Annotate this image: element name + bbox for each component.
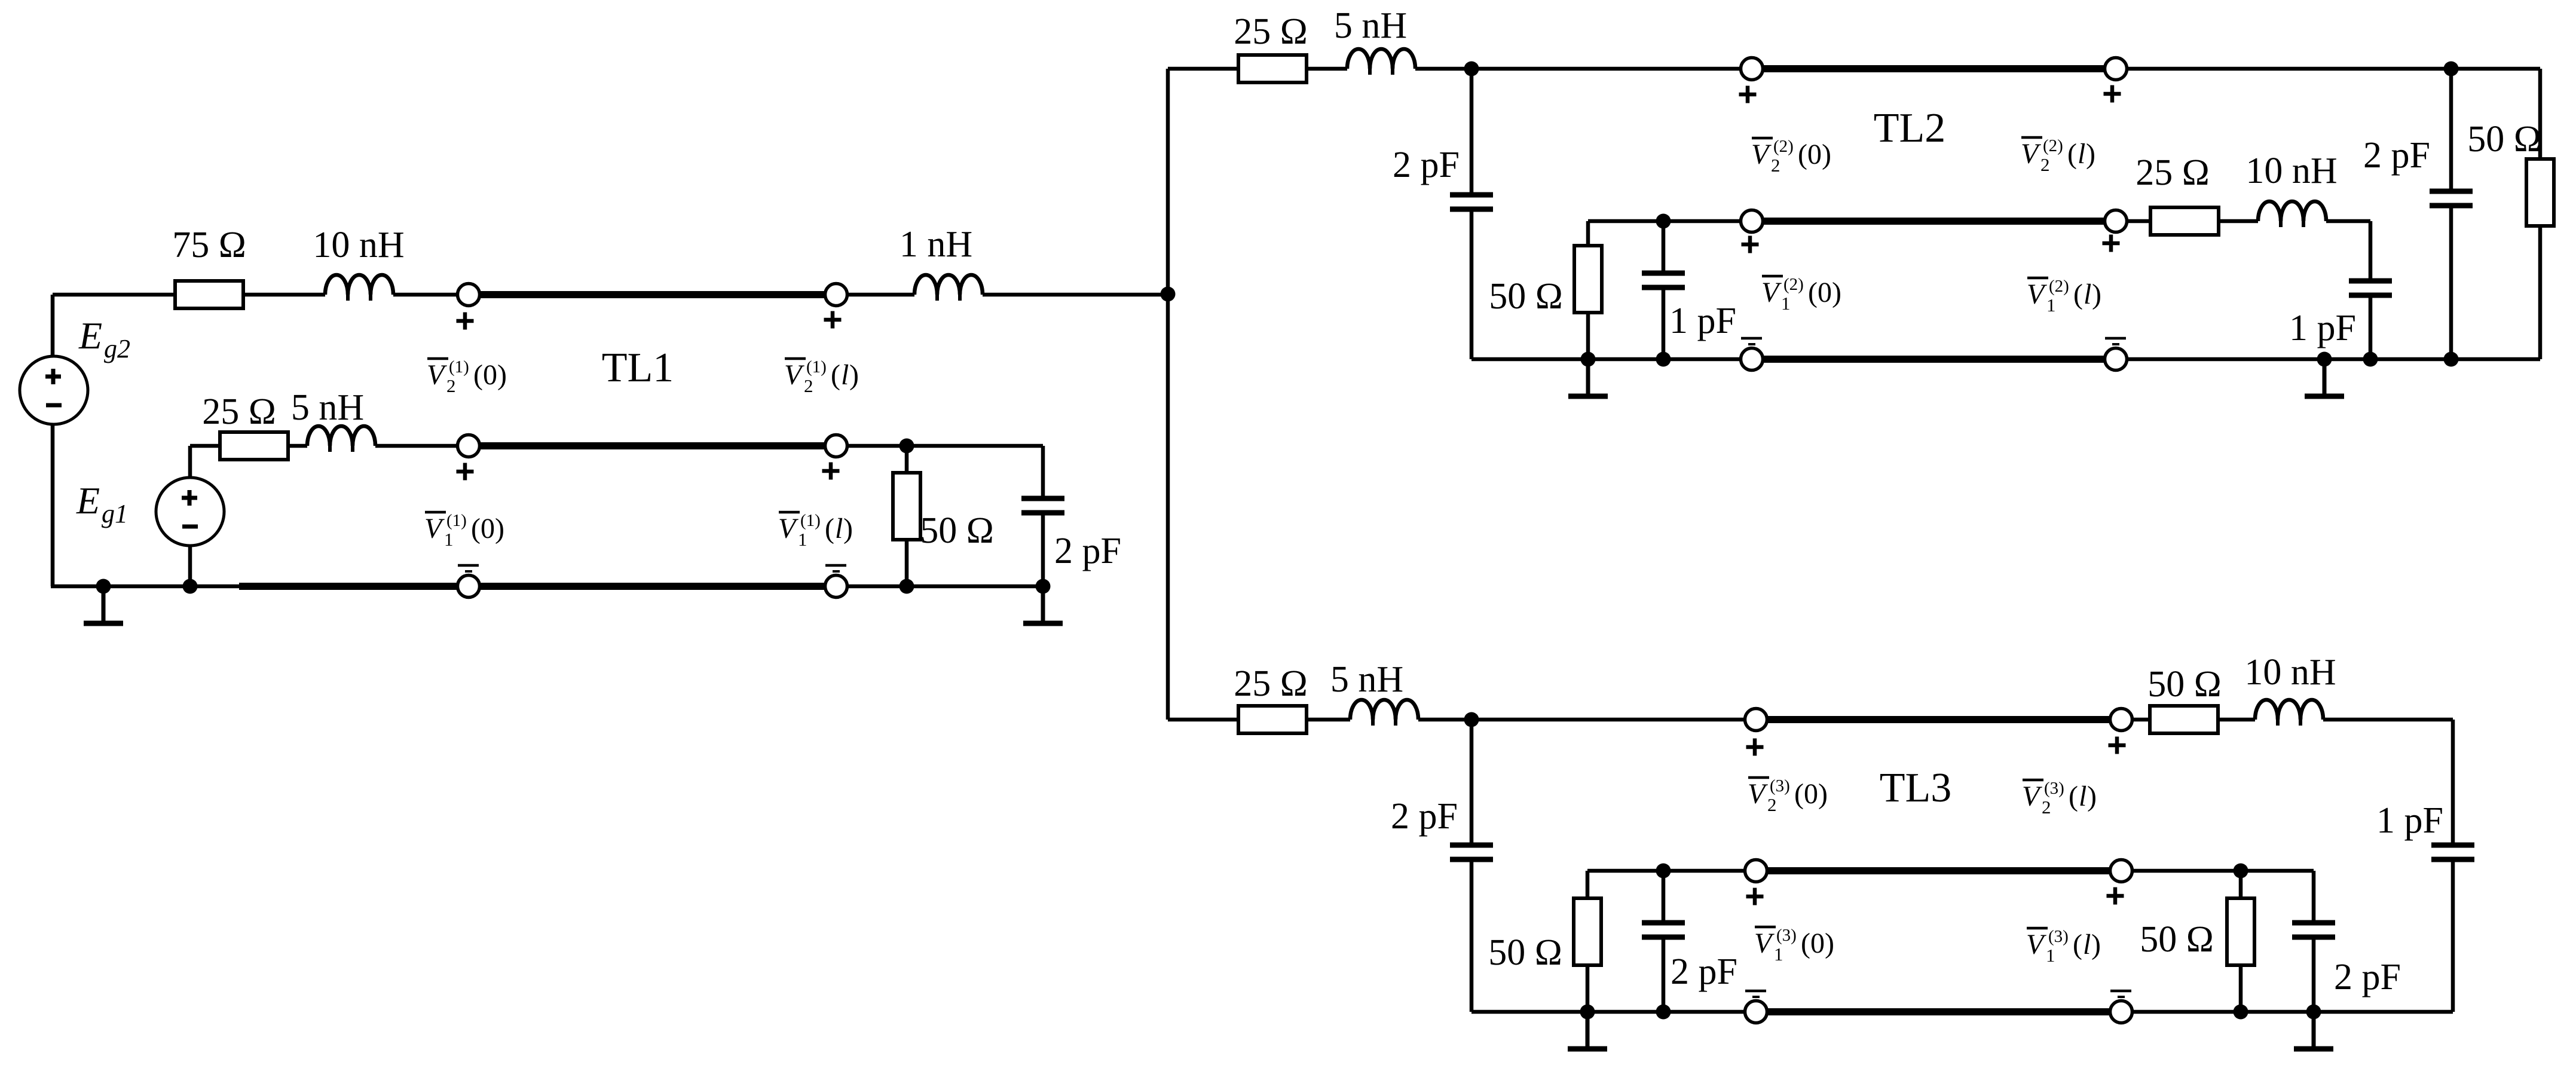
terminal V1(2)(0) [1741,210,1763,232]
svg-text:2: 2 [446,375,456,396]
junction 1pF bottom (TL2 input) [1656,352,1671,367]
wire E_g1 stem down [188,546,192,586]
label V1(2)(0) [1761,275,1841,314]
wire 50Ω top lead (TL3 input) [1586,871,1590,899]
svg-text:50 Ω: 50 Ω [1489,276,1563,317]
svg-text:l: l [841,359,849,391]
label 10nH (TL2 load) [2245,151,2337,191]
terminal V2(3)(l) [2110,709,2133,731]
svg-text:(0): (0) [1808,277,1841,308]
inductor 5nH (TL2 branch) [1347,49,1415,75]
junction ground-rail left [96,579,111,594]
label V2(3)(0) [1748,776,1828,815]
svg-text:(0): (0) [471,513,504,544]
svg-text:V: V [424,513,445,544]
label E_g1 [76,479,128,528]
inductor 10nH (TL3 top load) [2255,700,2323,726]
svg-text:TL1: TL1 [602,345,674,391]
label 2pF (TL3 inner) [1671,951,1737,992]
junction node TL3 input [1464,712,1479,727]
label 1pF (TL3 load) [2376,800,2443,841]
svg-text:1: 1 [2046,945,2055,966]
svg-text:g1: g1 [102,499,128,528]
junction ground (TL2 load) [2317,352,2332,367]
svg-text:5 nH: 5 nH [291,387,364,428]
junction cap bottom (TL1 load) [1036,579,1051,594]
resistor 25Ω (TL2 branch) [1238,55,1307,82]
svg-text:2: 2 [1767,794,1777,815]
svg-text:): ) [843,513,853,544]
svg-text:V: V [2021,138,2041,170]
junction node TL2 input [1464,62,1479,76]
svg-text:(1): (1) [806,357,827,377]
inductor 10nH [325,275,393,301]
label 50Ω (TL3 top load) [2147,664,2222,705]
svg-text:): ) [2091,929,2101,960]
wire 5nH to V2(2)(0) terminal [1415,67,1740,71]
svg-text:(1): (1) [449,357,469,377]
TL3 bottom conductor [1767,1008,2110,1015]
plus mark V1(2)(l) [2103,235,2120,252]
svg-text:): ) [2087,781,2097,812]
ground TL2 load [2305,359,2344,396]
svg-text:): ) [2092,279,2101,310]
svg-text:E: E [78,314,102,357]
label V2(2)(0) [1751,137,1831,176]
svg-text:(3): (3) [2048,927,2069,946]
svg-text:1 pF: 1 pF [2376,800,2443,841]
svg-text:1: 1 [444,529,454,550]
label V1(1)(0) [424,511,504,550]
svg-text:(0): (0) [1794,778,1828,810]
TL1 inner conductor [480,442,825,449]
label 2pF (TL2 input) [1393,145,1460,185]
wire left vertical upper (E_g2 to top row) [51,295,55,356]
TL1 bottom conductor [480,583,825,590]
svg-text:2: 2 [2040,154,2050,175]
plus mark V2(3)(0) [1746,739,1764,756]
svg-text:2 pF: 2 pF [2334,957,2401,997]
wire 5nH to TL1 inner terminal [375,444,457,448]
wire V1(3)(l) to 50Ω node [2133,869,2314,873]
wire cap bottom lead (TL1 load) [1041,514,1045,586]
resistor 50Ω (TL2 input) [1574,246,1602,313]
minus mark TL3 bottom-right [2110,991,2131,997]
wire 2pF top lead (TL3 right) [2312,871,2316,923]
wire 25Ω to 5nH [287,444,307,448]
junction 2pF top (TL2 load) [2444,62,2459,76]
wire TL1 bottom rail right [848,585,1043,589]
wire E_g1 stem up [188,446,192,478]
wire 1pF top lead (TL3 load) [2451,720,2455,845]
junction 2pF top (TL3 inner) [1656,864,1671,879]
svg-text:V: V [1761,277,1782,308]
wire 10nH to TL1 top terminal [393,293,457,297]
terminal TL1 bottom-right [825,576,848,598]
label V2(2)(l) [2021,136,2095,175]
svg-text:(: ( [2073,279,2083,310]
label 50Ω (TL3 inner load) [2140,919,2214,960]
capacitor 2pF (TL2 input) [1450,195,1493,209]
label 2pF (TL2 load) [2363,135,2430,176]
wire 50Ω bottom lead (TL1 load) [905,540,909,586]
svg-text:1 pF: 1 pF [2289,308,2356,348]
terminal TL3 bottom-left [1745,1001,1767,1023]
wire 50Ω bottom lead (TL2 input) [1586,312,1590,359]
svg-text:(2): (2) [1773,137,1794,156]
wire main bus to 25Ω (TL3 branch) [1168,718,1238,722]
wire TL2 bottom rail right [2127,357,2540,362]
wire 50Ω top lead (TL2 input) [1586,221,1590,246]
inductor 5nH (E_g1 branch) [307,426,375,452]
wire bottom rail thick segment [239,583,457,590]
plus mark V1(3)(0) [1746,888,1764,905]
svg-text:2 pF: 2 pF [2363,135,2430,176]
svg-text:l: l [2084,279,2091,310]
svg-text:(2): (2) [1783,275,1804,294]
label 25Ω (E_g1 branch) [202,391,276,432]
terminal V1(1)(l) [825,435,848,457]
terminal TL1 bottom-left [458,576,480,598]
resistor 50Ω (TL1 load) [893,473,920,540]
terminal V1(1)(0) [458,435,480,457]
wire E_g1 to 25Ω [190,444,221,448]
wire 1pF top lead (TL2 input) [1662,221,1666,273]
svg-text:25 Ω: 25 Ω [2136,152,2210,193]
voltage source E_g1 [156,478,224,546]
wire 2pF bottom lead (TL2 load) [2449,206,2453,359]
wire 1pF bottom lead (TL2 load) [2369,295,2373,359]
svg-text:(: ( [2073,929,2082,960]
wire 5nH to V2(3)(0) terminal [1418,718,1745,722]
svg-text:(2): (2) [2043,136,2063,155]
capacitor 2pF (TL3 inner) [1642,923,1685,937]
svg-text:TL3: TL3 [1880,765,1952,811]
wire 2pF bottom lead (TL3 right) [2312,937,2316,1012]
svg-text:(: ( [825,513,834,544]
resistor 25Ω (E_g1 branch) [220,432,288,460]
junction 50Ω bottom (TL3 inner load) [2234,1005,2248,1020]
wire TL2 top right [2127,67,2540,71]
label 1nH [900,224,972,265]
svg-text:1 pF: 1 pF [1669,301,1736,341]
wire left vertical lower (E_g2 to ground rail) [51,424,55,586]
svg-text:l: l [2079,781,2087,812]
wire V1(1)(l) to load node [848,444,1043,448]
wire 1nH to main junction [983,293,1168,297]
label 75Ω [172,225,246,265]
svg-text:): ) [2086,138,2095,170]
TL2 top conductor [1763,65,2104,72]
svg-text:75 Ω: 75 Ω [172,225,246,265]
label V1(2)(l) [2027,277,2101,316]
label 25Ω (TL2 branch) [1234,11,1308,52]
terminal V1(3)(0) [1745,860,1767,882]
resistor 75Ω [175,281,243,308]
ground TL1 load [1023,586,1063,623]
svg-text:g2: g2 [104,334,130,363]
voltage source E_g2 [20,356,88,424]
capacitor 1pF (TL3 load) [2431,845,2474,859]
svg-text:(2): (2) [2049,277,2069,296]
svg-text:TL2: TL2 [1874,105,1946,151]
wire 50Ω to ground rail (TL2 far right) [2538,226,2543,359]
svg-text:10 nH: 10 nH [2244,652,2336,693]
wire 50Ω bottom lead (TL3 input) [1586,965,1590,1012]
wire 25Ω to 5nH (TL3 branch) [1307,718,1350,722]
svg-text:2 pF: 2 pF [1671,951,1737,992]
wire TL3 input ground rail [1471,1010,1745,1014]
label 5nH (E_g1 branch) [291,387,364,428]
wire top row from E_g2 [53,293,175,297]
svg-text:50 Ω: 50 Ω [2467,119,2541,160]
svg-text:2: 2 [804,375,813,396]
terminal V2(2)(l) [2105,58,2127,80]
svg-text:(3): (3) [1776,926,1797,945]
label 10nH [313,225,404,265]
terminal TL2 bottom-left [1741,348,1763,371]
svg-text:50 Ω: 50 Ω [920,510,994,551]
junction 1pF top (TL2 input) [1656,214,1671,229]
svg-text:l: l [2083,929,2091,960]
inductor 10nH (TL2 load) [2258,201,2326,227]
svg-text:25 Ω: 25 Ω [202,391,276,432]
TL1 top conductor [480,291,825,298]
svg-text:50 Ω: 50 Ω [2140,919,2214,960]
svg-text:2 pF: 2 pF [1393,145,1460,185]
svg-text:V: V [1754,928,1775,959]
wire TL2 input ground rail [1471,357,1740,362]
label 1pF (TL2 input) [1669,301,1736,341]
label 2pF (TL1 load) [1054,531,1121,571]
svg-text:2: 2 [1771,155,1780,176]
svg-text:1: 1 [1781,293,1791,314]
resistor 25Ω (TL3 branch) [1238,706,1307,733]
svg-text:V: V [427,359,447,391]
svg-text:1: 1 [2046,295,2056,316]
svg-text:V: V [778,513,799,544]
minus mark TL3 bottom-left [1745,991,1766,997]
resistor 25Ω (TL2 load) [2150,207,2219,235]
ground TL2 input [1568,359,1608,396]
wire 2pF top lead (TL2 load) [2449,69,2453,191]
svg-text:(: ( [2067,138,2077,170]
capacitor 2pF (TL1 load) [1021,498,1064,513]
label V1(3)(l) [2026,927,2101,966]
svg-text:(: ( [2069,781,2078,812]
svg-text:): ) [849,359,859,391]
TL2 inner conductor [1763,218,2104,225]
svg-text:10 nH: 10 nH [313,225,404,265]
wire TL3 bottom rail right [2133,1010,2453,1014]
label 5nH (TL3 branch) [1330,659,1403,700]
wire cap top lead (TL1 load) [1041,446,1045,497]
minus mark TL1 bottom-left [458,565,479,571]
terminal TL3 bottom-right [2110,1001,2133,1023]
wire V2(3)(l) to 50Ω [2133,718,2150,722]
wire bottom rail thin segment [51,585,239,589]
wire V1(2)(0) lead [1588,219,1740,224]
svg-text:2 pF: 2 pF [1054,531,1121,571]
svg-text:(1): (1) [800,511,821,530]
plus mark V2(3)(l) [2109,737,2126,754]
svg-text:5 nH: 5 nH [1330,659,1403,700]
label V1(1)(l) [778,511,853,550]
ground bottom-left [84,586,123,623]
wire 2pF top lead (TL2 input) [1470,69,1474,195]
TL3 top conductor [1767,716,2110,723]
terminal V2(1)(0) [458,284,480,306]
svg-text:V: V [2022,781,2042,812]
wire 2pF bottom lead (TL3 input) [1470,859,1474,1012]
wire 2pF bottom lead (TL3 inner) [1662,937,1666,1012]
terminal V2(2)(0) [1741,58,1763,80]
svg-text:V: V [2026,929,2046,960]
TL3 inner conductor [1767,867,2110,874]
svg-text:l: l [2078,138,2085,170]
minus mark TL1 bottom-right [825,565,846,571]
wire 10nH to corner (TL3 top load) [2323,718,2453,722]
wire 1pF top lead (TL2 load) [2369,221,2373,281]
label V2(1)(0) [427,357,507,396]
capacitor 1pF (TL2 input) [1642,273,1685,287]
label E_g2 [78,314,130,363]
wire 50Ω top lead (TL1 load) [905,446,909,473]
wire V2(1)(l) to 1nH [848,293,914,297]
TL2 bottom conductor [1763,356,2104,363]
terminal V2(3)(0) [1745,709,1767,731]
terminal V1(3)(l) [2110,860,2133,882]
label 50Ω (TL3 input) [1488,932,1562,973]
plus mark V2(1)(0) [457,313,474,330]
wire 25Ω to 10nH (TL2 load) [2219,219,2258,224]
label 50Ω (TL1 load) [920,510,994,551]
wire main vertical bus [1166,69,1170,720]
resistor 50Ω (TL2 far right) [2526,159,2554,226]
label 1pF (TL2 load) [2289,308,2356,348]
svg-text:l: l [835,513,843,544]
svg-text:1: 1 [798,529,807,550]
junction 50Ω top (TL3 inner load) [2234,864,2248,879]
capacitor 2pF (TL2 load) [2430,191,2473,206]
label 50Ω (TL2 far right) [2467,119,2541,160]
wire main bus to 25Ω (TL2 branch) [1168,67,1238,71]
svg-text:1: 1 [1774,944,1783,965]
label 10nH (TL3 top load) [2244,652,2336,693]
terminal V2(1)(l) [825,284,848,306]
capacitor 2pF (TL3 input) [1450,845,1493,859]
wire 2pF top lead (TL3 input) [1470,720,1474,845]
junction 2pF bottom (TL3 inner) [1656,1005,1671,1020]
label 2pF (TL3 input) [1391,796,1458,837]
svg-text:25 Ω: 25 Ω [1234,11,1308,52]
svg-text:50 Ω: 50 Ω [1488,932,1562,973]
svg-text:2 pF: 2 pF [1391,796,1458,837]
wire 10nH to 1pF corner (TL2 load) [2326,219,2370,224]
svg-text:25 Ω: 25 Ω [1234,663,1308,704]
junction 2pF bottom (TL3 right) [2306,1005,2321,1020]
wire 2pF top lead (TL3 inner) [1662,871,1666,923]
wire 75Ω to 10nH [243,293,325,297]
label 25Ω (TL2 load) [2136,152,2210,193]
wire V1(2)(l) to 25Ω [2127,219,2150,224]
plus mark V1(3)(l) [2107,888,2124,905]
minus mark TL2 bottom-left [1741,338,1762,344]
svg-text:V: V [2027,279,2047,310]
svg-text:1 nH: 1 nH [900,224,972,265]
capacitor 1pF (TL2 load) [2349,281,2392,295]
terminal V1(2)(l) [2105,210,2127,232]
plus mark V1(1)(0) [457,463,474,481]
ground TL3 load [2294,1012,2333,1049]
svg-text:(0): (0) [1798,139,1831,170]
svg-text:(1): (1) [446,511,467,530]
terminal TL2 bottom-right [2105,348,2127,371]
junction 50Ω bottom (TL1 load) [900,579,914,594]
svg-text:2: 2 [2042,797,2051,818]
inductor 5nH (TL3 branch) [1350,700,1418,726]
plus mark V2(2)(l) [2104,85,2121,103]
junction 2pF bottom (TL2 load) [2444,352,2459,367]
label V1(3)(0) [1754,926,1834,965]
junction E_g1 return [183,579,198,594]
capacitor 2pF (TL3 right) [2292,923,2335,937]
svg-text:(0): (0) [473,359,507,391]
label V2(1)(l) [784,357,859,396]
svg-text:V: V [1748,778,1768,810]
wire 25Ω to 5nH (TL2 branch) [1307,67,1347,71]
svg-text:10 nH: 10 nH [2245,151,2337,191]
wire 50Ω top lead (TL3 inner load) [2239,871,2243,899]
label 25Ω (TL3 branch) [1234,663,1308,704]
svg-text:E: E [76,479,100,522]
ground TL3 input [1568,1012,1607,1049]
svg-text:V: V [784,359,804,391]
wire 1pF bottom lead (TL3 load) [2451,859,2455,1012]
svg-text:V: V [1751,139,1772,170]
junction main node [1161,287,1176,302]
wire 2pF bottom lead (TL2 input) [1470,209,1474,359]
plus mark V2(2)(0) [1739,86,1757,103]
svg-text:(: ( [831,359,840,391]
junction 50Ω bottom (TL3 input) [1580,1005,1595,1020]
label V2(3)(l) [2022,779,2097,818]
label TL1 [602,345,674,391]
plus mark V1(1)(l) [822,463,840,480]
label TL3 [1880,765,1952,811]
label 50Ω (TL2 input) [1489,276,1563,317]
wire 50Ω to 10nH (TL3 top load) [2218,718,2255,722]
label 2pF (TL3 right) [2334,957,2401,997]
svg-text:5 nH: 5 nH [1334,5,1407,46]
svg-text:50 Ω: 50 Ω [2147,664,2222,705]
wire 50Ω bottom lead (TL3 inner load) [2239,965,2243,1012]
wire 1pF bottom lead (TL2 input) [1662,287,1666,359]
label TL2 [1874,105,1946,151]
plus mark V2(1)(l) [824,311,842,329]
resistor 50Ω (TL3 inner load) [2227,898,2254,965]
svg-text:(3): (3) [2044,779,2064,798]
inductor 1nH [914,275,983,301]
resistor 50Ω (TL3 input) [1574,898,1601,965]
wire V1(3)(0) lead [1587,869,1745,873]
label 5nH (TL2 branch) [1334,5,1407,46]
resistor 50Ω (TL3 top load) [2150,706,2218,733]
plus mark V1(2)(0) [1742,236,1759,253]
wire TL2 right corner down to 50Ω [2538,69,2543,159]
svg-text:(3): (3) [1770,776,1790,795]
svg-text:(0): (0) [1801,928,1834,959]
